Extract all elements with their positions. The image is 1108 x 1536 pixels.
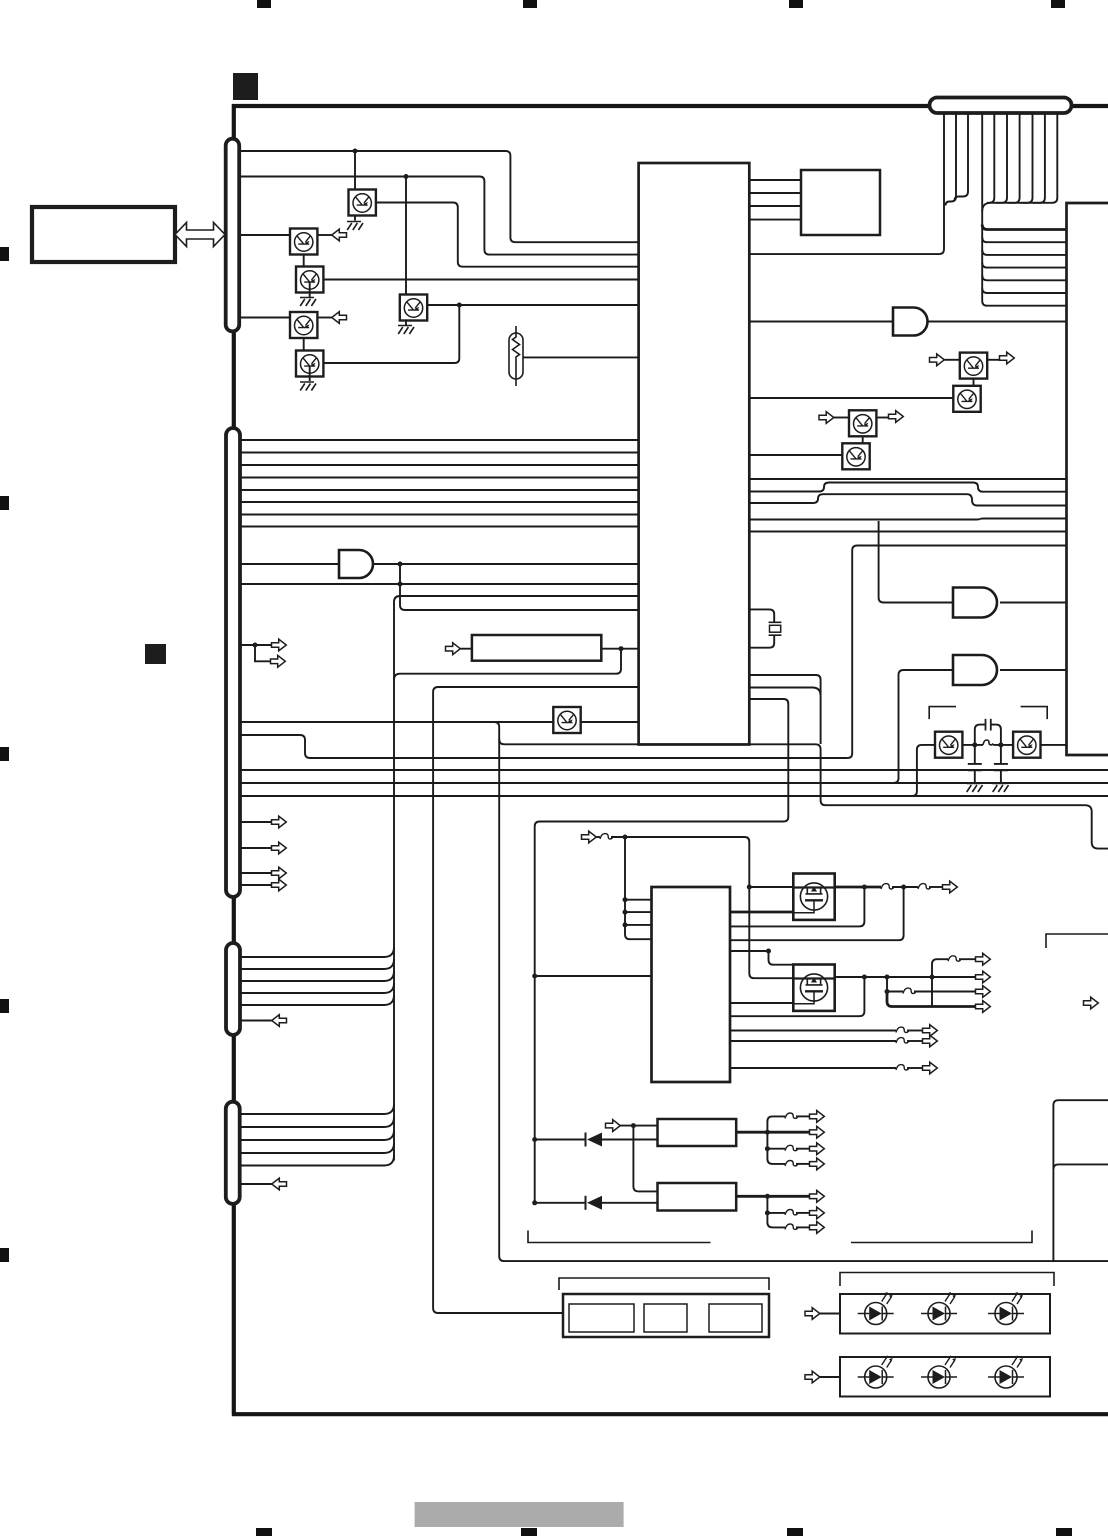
signal arrow IC5 main bbox=[810, 1190, 825, 1202]
wire Q3 base from node B bbox=[405, 177, 407, 296]
wire Q21 feedback bbox=[730, 977, 864, 1016]
wire IC4 branch down 1 bbox=[767, 1132, 785, 1149]
wire CN3 line 4 to bus bbox=[240, 983, 394, 993]
wire CN5 drop 3 merge bbox=[955, 113, 969, 201]
wire Q3 stem bbox=[405, 321, 407, 325]
wire D2 to regulator IC5 bbox=[602, 1202, 658, 1204]
ferrite bead FB10 bbox=[785, 1145, 798, 1150]
boundary bracket right sub bbox=[1046, 934, 1108, 948]
wire FB2 to FB3 bbox=[892, 886, 918, 888]
wire CN2 stub arrow 885 bbox=[240, 884, 272, 886]
wire east bus row 1 bold bbox=[982, 225, 1066, 230]
bracket filter left bbox=[929, 707, 956, 720]
signal arrow +B input bbox=[582, 831, 597, 843]
and-gate G3 bbox=[953, 655, 997, 685]
wire east bus row 4 bbox=[982, 263, 1066, 268]
wire +B rail east bbox=[611, 837, 793, 978]
wire Q7 output to node C bbox=[324, 305, 460, 363]
boundary bracket lower right bbox=[851, 1231, 1032, 1243]
wire IC5 branch 2 bbox=[767, 1213, 785, 1228]
diode D1 bbox=[586, 1133, 603, 1147]
signal arrow pair A out bbox=[1000, 352, 1015, 364]
wire rail branch up bbox=[932, 959, 948, 977]
wire CN2 bus line 8 bbox=[240, 526, 639, 528]
wire and-gate G3 feed from row 783 bbox=[894, 670, 954, 783]
wire pair B input from IC1 bbox=[749, 454, 842, 456]
wire Q3 output to IC1 bbox=[427, 304, 639, 306]
wire CN2 row 783 bbox=[240, 782, 1108, 784]
wire CN5 drop 4 east bus stem bbox=[982, 113, 1066, 306]
wire pair A out bbox=[987, 359, 1000, 361]
connector bus bar CN3 bbox=[226, 943, 240, 1035]
signal arrow pair 1 bbox=[272, 639, 287, 651]
capacitor C22 bbox=[994, 764, 1008, 770]
wire snake A IC1 to right block bbox=[749, 675, 820, 695]
wire CN2 row 796 bbox=[240, 795, 1108, 797]
wire CN2 bus line 4 bbox=[240, 477, 639, 479]
wire Q6 to Q7 bbox=[303, 328, 305, 351]
ferrite bead FB6 bbox=[896, 1027, 909, 1032]
wire FB12 to arrow bbox=[796, 1212, 810, 1214]
node rail 1 bbox=[862, 975, 867, 980]
block IC3 outline bbox=[1067, 203, 1108, 755]
wire IC1 to ceramic resonator box pin 3 bbox=[749, 205, 801, 207]
transistor Q2 bbox=[290, 229, 317, 255]
wire CN2 line 722 to IC1 bbox=[240, 721, 639, 723]
wire IC1 to and-gate G4 bbox=[749, 321, 893, 323]
signal arrow IC4 out b bbox=[810, 1111, 825, 1123]
crop mark left 4 bbox=[0, 999, 9, 1013]
signal arrow branch C bbox=[976, 986, 991, 998]
signal arrow pair A in bbox=[930, 354, 945, 366]
wire Q2 input from CN1 bbox=[240, 234, 290, 236]
crop mark bottom 4 bbox=[1056, 1528, 1072, 1536]
wire arrow to resistor array bbox=[460, 648, 472, 650]
wire IC2 aux to Q21 bbox=[730, 951, 793, 965]
transistor pair B upper Q12 bbox=[849, 410, 876, 436]
crop mark bottom 3 bbox=[787, 1528, 803, 1536]
wire CN4 line 1 to bus bbox=[240, 1104, 394, 1114]
wire branch 722 down the left frame bbox=[494, 722, 1108, 1261]
signal arrow CN3 bbox=[272, 1015, 287, 1027]
wire IC2 gate tie 2 bbox=[625, 911, 652, 913]
node IC4 out 1 bbox=[765, 1130, 770, 1135]
signal arrow IC4 out d bbox=[810, 1158, 825, 1170]
wire net B from CN1 pin to IC1 bbox=[240, 177, 639, 255]
signal arrow 822 bbox=[272, 816, 287, 828]
wire IC2 gate tie 3 bbox=[625, 924, 652, 926]
wire Q2 to Q4 bbox=[303, 244, 305, 267]
boundary bracket lower left bbox=[528, 1231, 711, 1243]
MOSFET Q20 bbox=[793, 874, 834, 920]
wire CN5 drop 8 merge bbox=[1021, 113, 1033, 203]
node gate tie 1 bbox=[623, 897, 628, 902]
block: driver sub box 1 bbox=[569, 1304, 634, 1332]
transistor Q15 filter right bbox=[1013, 732, 1040, 758]
node D junction 1 bbox=[398, 562, 403, 567]
block: oscillator module X2 bbox=[801, 170, 880, 235]
wire Q1 output to IC1 bbox=[376, 203, 639, 267]
wire Q4 output to IC1 bbox=[324, 279, 639, 281]
crop mark left 1 bbox=[0, 247, 9, 261]
wire CN4 line 5 to bus bbox=[240, 1156, 394, 1166]
signal arrow reg input bbox=[606, 1120, 621, 1132]
wire FB4 to arrow bbox=[959, 958, 976, 960]
node aux junction bbox=[766, 949, 771, 954]
ground C21 bbox=[967, 784, 983, 793]
wire pair B out bbox=[876, 417, 889, 419]
wire node D to row 610 bbox=[400, 584, 639, 610]
node +B MOSFET branch bbox=[747, 885, 752, 890]
wire FB6 to arrow bbox=[907, 1030, 923, 1032]
wire Q15 to right block bbox=[1040, 744, 1066, 746]
node IC5 out 2 bbox=[765, 1210, 770, 1215]
wire IC2 gate drive Q20 bbox=[730, 911, 794, 914]
wire CN3 stub arrow bbox=[240, 1020, 286, 1022]
signal arrow at Q2 bbox=[332, 229, 347, 241]
wire CN2 stub arrow 848 bbox=[240, 847, 272, 849]
block: motor driver IC2 bbox=[652, 887, 731, 1082]
node filter 2 bbox=[998, 742, 1003, 747]
wire branch at 744 east under IC1 bbox=[499, 739, 1108, 848]
ground C22 bbox=[993, 784, 1009, 793]
wire branch D tie bbox=[931, 977, 933, 1007]
wire frame to diode D1 bbox=[535, 1139, 586, 1141]
bidirectional bus arrow bbox=[175, 223, 225, 247]
wire CN4 line 4 to bus bbox=[240, 1143, 394, 1153]
transistor pair A lower Q11 bbox=[953, 386, 980, 412]
wire C21 to ground bbox=[974, 770, 976, 782]
signal arrow IC4 main bbox=[810, 1126, 825, 1138]
node Q20 out 1 bbox=[862, 885, 867, 890]
wire CN2 bus line 1 bbox=[240, 439, 639, 441]
ground under Q3 bbox=[398, 326, 414, 335]
LED D15 bbox=[988, 1356, 1024, 1389]
bracket filter right bbox=[1021, 707, 1048, 720]
signal arrow IC5 out b bbox=[810, 1207, 825, 1219]
wire arrow to IC4 bbox=[620, 1125, 657, 1127]
signal arrow pair 2 bbox=[271, 655, 286, 667]
connector bus bar CN5 top bbox=[930, 98, 1072, 114]
wire arrow to strip 2 bbox=[820, 1376, 840, 1378]
signal arrow branch D bbox=[976, 1001, 991, 1013]
wire C22 to ground bbox=[1000, 770, 1002, 782]
crop mark left 2 bbox=[0, 496, 9, 510]
wire FB7 to arrow bbox=[907, 1040, 923, 1042]
signal arrow IC5 out e bbox=[810, 1222, 825, 1234]
LED D10 bbox=[858, 1292, 894, 1325]
wire CN2 line 735 jog to row 757 bbox=[240, 735, 847, 758]
signal arrow 873 bbox=[272, 867, 287, 879]
wire IC1 power pin to sub-block frame bbox=[535, 699, 789, 1203]
wire Q20 output rail bbox=[834, 886, 881, 889]
ferrite bead FB13 bbox=[785, 1224, 798, 1229]
node IC2 VCC bbox=[532, 974, 537, 979]
wire CN4 stub arrow bbox=[240, 1183, 286, 1185]
wire pair A link bbox=[973, 379, 975, 386]
wire IC1 to ceramic resonator box pin 4 bbox=[749, 219, 801, 221]
wire CN2 bus line 7 bbox=[240, 514, 639, 516]
bracket LED driver bbox=[559, 1278, 769, 1290]
block: LED strip 1 bbox=[840, 1294, 1050, 1334]
signal arrow LED strip 2 bbox=[805, 1371, 820, 1383]
wire IC1 out w2 jog to right block bbox=[749, 483, 1066, 492]
wire CN3 line 5 to bus bbox=[240, 995, 394, 1005]
and-gate G4 bbox=[893, 308, 928, 336]
transistor Q7 bbox=[296, 351, 323, 377]
LED D11 bbox=[921, 1292, 957, 1325]
wire net A from CN1 pin to IC1 bbox=[240, 151, 639, 242]
node filter 1 bbox=[972, 742, 977, 747]
node E junction bbox=[619, 646, 624, 651]
node +B ferrite junction bbox=[623, 835, 628, 840]
transistor Q14 filter left bbox=[935, 732, 962, 758]
wire CN4 line 3 to bus bbox=[240, 1130, 394, 1140]
wire bypass cap top path bbox=[975, 725, 1001, 745]
signal arrow IC2 out 2 bbox=[923, 1035, 938, 1047]
wire CN3 line 2 to bus bbox=[240, 959, 394, 969]
LED D14 bbox=[921, 1356, 957, 1389]
crop mark bottom 1 bbox=[256, 1528, 272, 1536]
wire G4 output to right block bbox=[928, 321, 1067, 323]
block: driver sub box 3 bbox=[709, 1304, 762, 1332]
wire IC1 out w5 to right block bbox=[749, 531, 1066, 533]
node gate tie 2 bbox=[623, 910, 628, 915]
wire CN2 line to IC1 at 584 bbox=[240, 583, 639, 585]
wire CN5 drop 6 merge bbox=[996, 113, 1007, 203]
wire Q21 output rail bbox=[834, 976, 976, 978]
ferrite bead FB4 bbox=[948, 956, 961, 961]
diode D2 bbox=[586, 1196, 603, 1210]
node IC5 out 1 bbox=[765, 1194, 770, 1199]
capacitor C20 plates bbox=[986, 719, 991, 731]
ferrite bead FB12 bbox=[785, 1210, 798, 1215]
wire Q7 stem bbox=[309, 366, 311, 381]
wire CN4 line 2 to bus bbox=[240, 1117, 394, 1127]
wire east bus row 5 bbox=[982, 275, 1066, 280]
node A junction bbox=[353, 149, 358, 154]
transistor Q6 bbox=[290, 312, 317, 338]
and-gate G1 bbox=[339, 550, 373, 578]
transistor pair B lower Q13 bbox=[842, 443, 869, 469]
wire Q14 west to row 796 bbox=[905, 745, 935, 796]
wire CN5 drop 10 bus top bbox=[982, 113, 1057, 211]
node IC4 out 2 bbox=[765, 1146, 770, 1151]
wire FB8 to arrow bbox=[907, 1067, 923, 1069]
signal arrow IC4 out c bbox=[810, 1143, 825, 1155]
wire IC2 gate tie 1 bbox=[625, 899, 652, 901]
ferrite bead FB3 bbox=[918, 884, 931, 889]
crystal X1 bbox=[769, 622, 782, 635]
wire node E down to row 5 bbox=[394, 649, 621, 680]
wire CN2 bus line 5 bbox=[240, 489, 639, 491]
crop mark top 3 bbox=[789, 0, 803, 8]
node rail 2 bbox=[885, 975, 890, 980]
wire pair A input from IC1 bbox=[749, 397, 953, 399]
wire IC2 VCC from frame bbox=[535, 975, 652, 977]
wire branch to arrow pair 2 bbox=[255, 645, 271, 661]
thermistor TH1 bbox=[509, 326, 523, 386]
wire east bus row 6 bbox=[982, 288, 1066, 293]
wire pair B link bbox=[862, 437, 864, 444]
wire +B arrow to ferrite bbox=[596, 836, 600, 838]
wire IC2 out 1 bbox=[730, 1030, 896, 1032]
wire coil to node 2 bbox=[993, 744, 1013, 746]
wire G2 output to right block bbox=[1000, 602, 1067, 604]
bracket LED strips bbox=[840, 1273, 1054, 1287]
ferrite bead FB1 bbox=[600, 834, 613, 839]
node B junction bbox=[404, 174, 409, 179]
node gate tie 3 bbox=[623, 922, 628, 927]
signal arrow CN4 bbox=[272, 1178, 287, 1190]
signal arrow LED strip 1 bbox=[805, 1308, 820, 1320]
IC1 main microcontroller bbox=[639, 163, 750, 745]
node branch C bbox=[885, 989, 890, 994]
node frame diode 2 bbox=[532, 1200, 537, 1205]
wire rail branch D heavy bbox=[887, 992, 976, 1007]
wire cap C21 lead bbox=[974, 745, 976, 763]
wire crystal X1 top bbox=[749, 609, 774, 622]
wire FB11 to arrow bbox=[796, 1163, 810, 1165]
wire FB5 to arrow bbox=[914, 991, 976, 993]
wire G3 output to right block bbox=[1000, 669, 1067, 671]
wire CN5 drop 1 to west bus bbox=[749, 113, 944, 254]
capacitor C21 bbox=[968, 764, 982, 770]
wire IC1 to ceramic resonator box pin 1 bbox=[749, 179, 801, 181]
transistor pair A upper Q10 bbox=[960, 353, 987, 379]
gray label box bottom bbox=[415, 1502, 624, 1527]
ground under Q7 bbox=[300, 382, 316, 391]
schematic outer border bbox=[232, 104, 1108, 1414]
wire Q20 feedback 2 bbox=[730, 887, 904, 940]
wire CN5 drop 5 merge bbox=[987, 113, 994, 203]
wire FB13 to arrow bbox=[796, 1226, 810, 1228]
crop mark top 4 bbox=[1051, 0, 1065, 8]
wire FB3 to arrow bbox=[929, 886, 943, 888]
crop mark left 3 bbox=[0, 747, 9, 761]
wire CN2 stub arrow 822 bbox=[240, 821, 272, 823]
wire arrow to strip 1 bbox=[820, 1313, 840, 1315]
crop mark left 5 bbox=[0, 1248, 9, 1262]
block: LED strip 2 bbox=[840, 1357, 1050, 1397]
wire IC4 branch down 2 bbox=[767, 1149, 785, 1164]
section marker square top bbox=[233, 73, 258, 100]
signal arrow IC2 out 1 bbox=[923, 1025, 938, 1037]
block: driver sub box 2 bbox=[644, 1304, 687, 1332]
signal arrow 848 bbox=[272, 842, 287, 854]
node D junction 2 bbox=[398, 582, 403, 587]
coil L10 bbox=[983, 740, 993, 745]
connector bus bar CN4 bbox=[226, 1102, 240, 1204]
wire AND gate G1 input bbox=[240, 563, 339, 565]
crop mark top 1 bbox=[257, 0, 271, 8]
wire IC5 branch 1 bbox=[767, 1196, 785, 1213]
wire Q1 base from node A bbox=[354, 151, 356, 190]
signal arrow 885 bbox=[272, 879, 287, 891]
wire gate tie vertical bbox=[625, 837, 652, 939]
signal arrow rail out bbox=[976, 971, 991, 983]
block: regulator IC5 bbox=[658, 1183, 737, 1211]
ferrite bead FB2 bbox=[881, 884, 894, 889]
wire Q2 collector stub bbox=[318, 234, 333, 236]
node frame diode 1 bbox=[532, 1137, 537, 1142]
node rail 4 bbox=[930, 975, 935, 980]
connector bus bar CN2 bbox=[226, 428, 240, 897]
wire crystal X1 bottom bbox=[749, 635, 774, 648]
ground under Q4 bbox=[300, 298, 316, 307]
wire CN5 drop 7 merge bbox=[1008, 113, 1020, 203]
connector bus bar CN1 bbox=[226, 139, 240, 332]
node reg input bbox=[631, 1123, 636, 1128]
ferrite bead FB9 bbox=[785, 1113, 798, 1118]
wire IC2 gate drive Q21 bbox=[730, 1002, 793, 1004]
node C junction bbox=[457, 303, 462, 308]
signal arrow IC2 out 3 bbox=[923, 1062, 938, 1074]
wire IC1 out w1 to right block bbox=[749, 478, 1066, 480]
ferrite bead FB7 bbox=[896, 1038, 909, 1043]
wire CN2 stub to arrows at 645 bbox=[240, 644, 272, 646]
wire and-gate G2 feed vertical bbox=[879, 521, 953, 603]
wire CN2 row 770 bbox=[240, 769, 1108, 771]
wire Q6 collector stub bbox=[318, 317, 333, 319]
signal arrow at Q6 bbox=[332, 312, 347, 324]
wire IC2 out 2 bbox=[730, 1040, 896, 1042]
wire rail branch C bbox=[887, 977, 903, 992]
signal arrow resistor input bbox=[446, 643, 461, 655]
wire G1 output to IC1 bbox=[373, 563, 639, 565]
wire IC1 out w3 jog to right block bbox=[749, 494, 1066, 505]
crop mark bottom 2 bbox=[521, 1528, 537, 1536]
signal arrow pair B out bbox=[889, 411, 904, 423]
MOSFET Q21 bbox=[793, 965, 834, 1011]
wire branch to IC5 bbox=[633, 1126, 657, 1192]
signal arrow pair B in bbox=[819, 412, 834, 424]
and-gate G2 bbox=[953, 588, 997, 618]
wire right frame line 2 bbox=[1053, 1164, 1108, 1169]
wire CN2 bus line 2 bbox=[240, 452, 639, 454]
wire CN2 stub arrow 873 bbox=[240, 872, 272, 874]
wire IC4 main output bbox=[736, 1131, 810, 1134]
wire FB9 to arrow bbox=[796, 1115, 810, 1117]
block: regulator IC4 bbox=[658, 1119, 737, 1146]
ferrite bead FB5 bbox=[903, 988, 916, 993]
signal arrow branch up bbox=[976, 953, 991, 965]
wire IC1 to ceramic resonator box pin 2 bbox=[749, 192, 801, 194]
wire Q4 stem bbox=[309, 282, 311, 297]
wire CN5 drop 9 merge bbox=[1033, 113, 1045, 203]
wire CN3 line 3 to bus bbox=[240, 971, 394, 981]
wire IC1 out w4 jog to right block bbox=[749, 519, 1066, 520]
wire cap C22 lead bbox=[1000, 745, 1002, 763]
wire arrow to pair B bbox=[834, 417, 850, 419]
section marker square left bbox=[145, 644, 166, 664]
wire CN3 line 1 to bus bbox=[240, 947, 394, 957]
ground under Q1 bbox=[347, 222, 363, 231]
wire IC4 branch up bbox=[767, 1116, 785, 1132]
wire arrow to pair A bbox=[944, 359, 960, 361]
wire CN2 bus line 3 bbox=[240, 464, 639, 466]
transistor Q4 bbox=[296, 267, 323, 293]
wire IC5 main output bbox=[736, 1195, 810, 1198]
wire snake B IC1 to right block bbox=[749, 546, 1066, 759]
wire east bus row 3 bbox=[982, 250, 1066, 255]
LED D13 bbox=[858, 1356, 894, 1389]
wire bus stem to row 596 bbox=[394, 596, 639, 1161]
wire Q6 input from CN1 bbox=[240, 317, 290, 319]
wire row 687 from bus x433 to IC1 bbox=[433, 687, 638, 1313]
resistor array RA1 bbox=[472, 635, 601, 661]
ferrite bead FB8 bbox=[896, 1065, 909, 1070]
